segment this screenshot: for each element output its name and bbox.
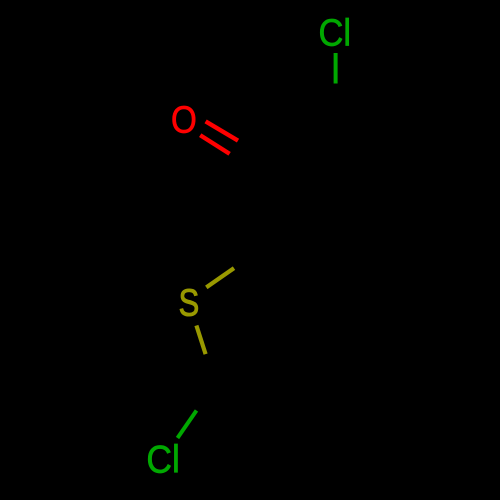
bond S-C2 half-bond (olive)	[206, 268, 234, 287]
bond S-C5 half-bond (olive)	[196, 326, 205, 355]
bond Cl1-CH2 half-bond (green, top)	[334, 53, 338, 84]
svg-text:O: O	[171, 99, 197, 141]
double bond C=O line 1 (upper)	[206, 121, 238, 140]
svg-text:Cl: Cl	[146, 439, 180, 482]
bond Cl2-C5 half-bond (green, bottom)	[178, 411, 197, 439]
svg-text:Cl: Cl	[319, 12, 352, 54]
svg-text:S: S	[179, 283, 200, 325]
double bond C=O line 2 (lower)	[200, 135, 229, 154]
